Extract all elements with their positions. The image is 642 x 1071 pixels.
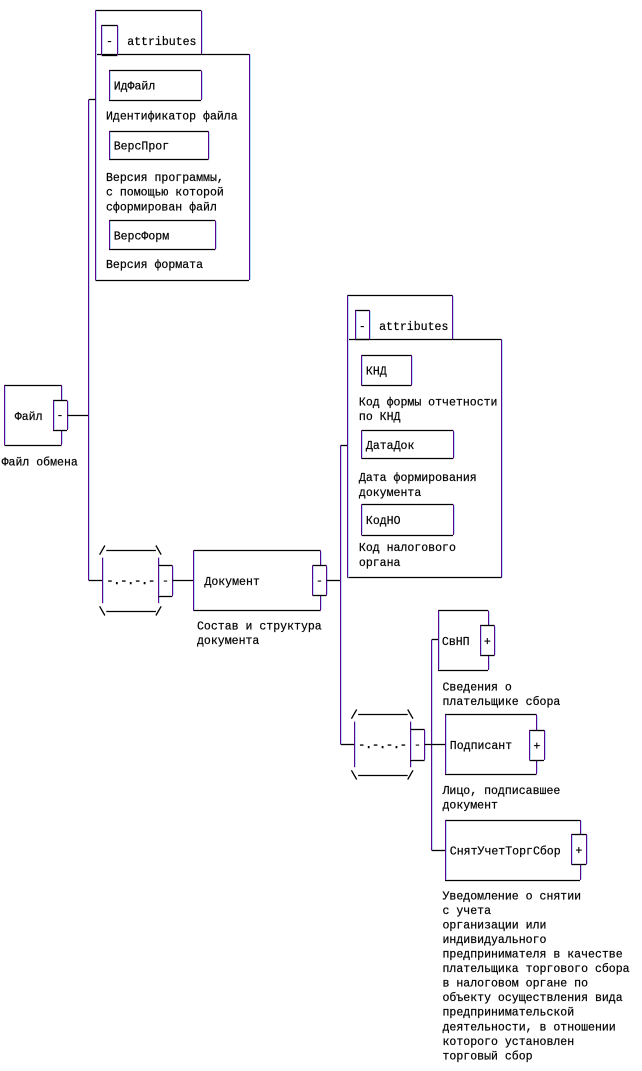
expand box [-] of attributes (Файл) — [102, 25, 119, 56]
wire child trunk to СнятУчетТоргСбор — [432, 850, 445, 852]
svg-text:Код налогового: Код налогового — [359, 542, 456, 555]
expand box [-] of attributes (Документ) — [355, 310, 371, 340]
annotation Код налогового органа — [359, 542, 456, 570]
svg-text:с учета: с учета — [443, 905, 492, 918]
svg-text:объекту осуществления вида: объекту осуществления вида — [443, 992, 623, 1005]
wire Документ to trunk2 — [327, 580, 341, 582]
svg-text:которого установлен: которого установлен — [443, 1036, 575, 1049]
trunk wire 1 (vertical) — [89, 100, 90, 581]
svg-text:предпринимателя в качестве: предпринимателя в качестве — [443, 949, 623, 962]
svg-text:Файл: Файл — [15, 411, 43, 424]
svg-text:Лицо, подписавшее: Лицо, подписавшее — [442, 785, 561, 798]
svg-text:с помощью которой: с помощью которой — [106, 187, 224, 200]
svg-text:+: + — [575, 845, 582, 858]
expand box [+] of СвНП — [480, 626, 496, 656]
svg-text:+: + — [484, 636, 491, 649]
svg-text:Идентификатор файла: Идентификатор файла — [106, 111, 238, 124]
annotation Состав и структура документа — [197, 620, 322, 648]
attribute box ВерсФорм — [109, 221, 217, 250]
wire trunk1 to sequence 1 — [89, 580, 103, 582]
svg-text:органа: органа — [359, 557, 401, 570]
annotation СнятУчетТоргСбор — [443, 890, 630, 1063]
container: attributes group of Файл — [96, 11, 251, 281]
wire Файл to trunk1 — [67, 415, 89, 417]
expand box [-] of Документ — [313, 566, 328, 596]
sequence compositor 2 — [351, 710, 413, 780]
wire sequence1 to Документ — [172, 580, 193, 582]
element box Файл — [5, 385, 63, 446]
svg-text:документа: документа — [359, 487, 421, 500]
attribute box ВерсПрог — [109, 131, 210, 160]
svg-text:плательщика торгового сбора: плательщика торгового сбора — [443, 963, 630, 976]
svg-text:торговый сбор: торговый сбор — [443, 1050, 533, 1063]
attribute box КодНО — [362, 505, 455, 536]
svg-text:организации или: организации или — [443, 919, 547, 932]
svg-text:ДатаДок: ДатаДок — [366, 440, 415, 453]
svg-text:сформирован файл: сформирован файл — [106, 201, 217, 214]
svg-text:-.-.-.-: -.-.-.- — [107, 575, 156, 588]
model group connector box 2 — [410, 730, 425, 761]
sequence compositor 1 — [100, 546, 162, 616]
wire trunk1 to attributes container — [89, 99, 96, 101]
svg-text:attributes: attributes — [379, 321, 448, 334]
annotation Лицо подписавшее документ — [442, 785, 561, 813]
svg-text:-: - — [414, 739, 421, 752]
svg-text:ИдФайл: ИдФайл — [114, 81, 156, 94]
svg-text:-: - — [57, 410, 64, 423]
svg-text:в налоговом органе по: в налоговом органе по — [443, 978, 589, 991]
svg-text:Файл обмена: Файл обмена — [2, 457, 78, 470]
svg-text:Дата формирования: Дата формирования — [359, 472, 477, 485]
svg-text:документ: документ — [443, 800, 499, 813]
element box СвНП — [438, 611, 490, 671]
svg-text:ВерсФорм: ВерсФорм — [114, 230, 170, 243]
annotation ВерсПрог — [106, 172, 224, 214]
svg-text:Версия программы,: Версия программы, — [106, 172, 224, 185]
svg-text:Состав и структура: Состав и структура — [197, 620, 322, 633]
attribute box ИдФайл — [109, 71, 203, 101]
wire child trunk to СвНП — [432, 639, 438, 641]
annotation Дата формирования документа — [359, 472, 477, 500]
wire sequence2 to Подписант — [425, 744, 445, 746]
element box Документ — [194, 551, 322, 611]
svg-text:-.-.-.-: -.-.-.- — [358, 739, 407, 752]
svg-text:по КНД: по КНД — [359, 411, 401, 424]
svg-text:плательщике сбора: плательщике сбора — [443, 696, 561, 709]
element box Подписант — [445, 715, 538, 775]
svg-text:ВерсПрог: ВерсПрог — [114, 141, 169, 154]
svg-text:+: + — [533, 741, 540, 754]
svg-text:Код формы отчетности: Код формы отчетности — [359, 396, 498, 409]
svg-text:-: - — [316, 575, 323, 588]
annotation Файл обмена — [2, 457, 78, 470]
container: attributes group of Документ — [347, 296, 502, 578]
svg-text:Уведомление о снятии: Уведомление о снятии — [443, 890, 582, 903]
svg-text:-: - — [359, 320, 366, 333]
element box СнятУчетТоргСбор — [445, 820, 582, 881]
svg-text:документа: документа — [197, 635, 259, 648]
svg-text:СвНП: СвНП — [442, 636, 470, 649]
svg-text:-: - — [106, 36, 113, 49]
trunk wire 2 (vertical) — [341, 445, 342, 744]
wire trunk2 to sequence 2 — [341, 744, 354, 746]
expand box [-] of Файл — [53, 401, 69, 431]
svg-text:предпринимательской: предпринимательской — [443, 1007, 575, 1020]
expand box [+] of СнятУчетТоргСбор — [572, 834, 588, 865]
wire trunk2 to attributes container of Документ — [341, 445, 348, 447]
svg-text:КодНО: КодНО — [366, 515, 401, 528]
svg-text:Подписант: Подписант — [450, 740, 512, 753]
svg-text:Документ: Документ — [204, 576, 260, 589]
svg-text:индивидуального: индивидуального — [443, 934, 547, 947]
annotation Версия формата — [106, 259, 203, 272]
annotation Код формы отчетности по КНД — [359, 396, 498, 424]
svg-text:КНД: КНД — [366, 366, 387, 379]
svg-text:-: - — [162, 575, 169, 588]
child trunk wire (vertical) — [432, 640, 433, 851]
attribute box КНД — [362, 355, 413, 386]
svg-text:Сведения о: Сведения о — [443, 681, 512, 694]
svg-text:деятельности, в отношении: деятельности, в отношении — [443, 1021, 616, 1034]
annotation Сведения о плательщике сбора — [443, 681, 561, 709]
svg-text:СнятУчетТоргСбор: СнятУчетТоргСбор — [450, 846, 561, 859]
annotation Идентификатор файла — [106, 111, 238, 124]
attribute box ДатаДок — [362, 431, 455, 459]
model group connector box 1 — [159, 566, 174, 597]
svg-text:Версия формата: Версия формата — [106, 259, 203, 272]
expand box [+] of Подписант — [530, 730, 546, 761]
svg-text:attributes: attributes — [127, 36, 196, 49]
